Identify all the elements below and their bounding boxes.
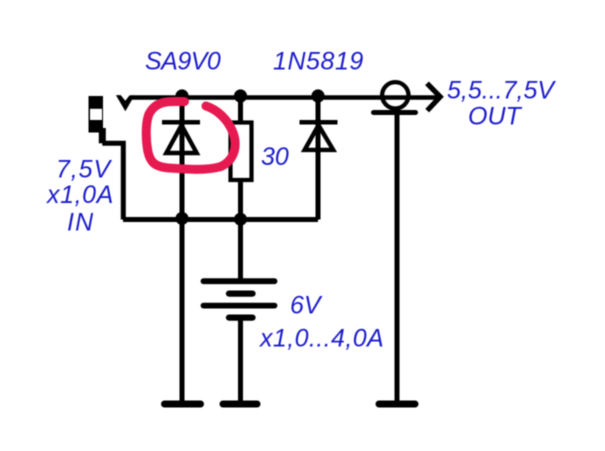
ground bar left <box>165 401 201 408</box>
junction dot top D2 <box>311 89 324 102</box>
wire vertical output to ground <box>395 111 400 402</box>
junction dot lower D1 <box>176 212 189 225</box>
diode D2 1N5819 cathode bar <box>300 120 338 125</box>
output connector circle <box>382 82 408 108</box>
output connector sleeve bar <box>374 110 416 115</box>
wire vertical resistor bottom to battery <box>238 181 243 279</box>
svg-text:6V: 6V <box>290 292 323 320</box>
svg-text:SA9V0: SA9V0 <box>145 47 221 75</box>
ground bar right <box>379 401 415 408</box>
diode D1 SA9V0 cathode bar <box>162 120 200 125</box>
diode D1 SA9V0 triangle <box>166 125 196 153</box>
battery BT1 plate long bottom <box>204 303 275 309</box>
diode D2 1N5819 triangle <box>305 125 334 150</box>
svg-text:IN: IN <box>67 209 94 237</box>
junction dot top D1 <box>175 89 188 102</box>
svg-text:x1,0A: x1,0A <box>46 181 114 209</box>
svg-text:x1,0...4,0A: x1,0...4,0A <box>259 325 384 353</box>
input chevron arrow <box>116 95 135 111</box>
svg-text:1N5819: 1N5819 <box>273 47 364 75</box>
svg-text:7,5V: 7,5V <box>56 156 112 184</box>
resistor R1 30 <box>231 123 252 181</box>
wire vertical through D1 to ground <box>180 98 185 403</box>
battery BT1 plate long top <box>204 278 275 284</box>
wire vertical D2 branch <box>316 98 321 220</box>
wire vertical resistor branch top <box>238 98 243 123</box>
svg-text:30: 30 <box>261 143 289 171</box>
svg-text:OUT: OUT <box>468 103 523 131</box>
junction dot lower R1 <box>234 213 247 226</box>
ground bar middle <box>223 401 257 408</box>
wire plug to lower rail staircase <box>99 128 106 143</box>
battery BT1 plate short lower <box>229 315 253 321</box>
connector J1 input plug <box>89 96 104 133</box>
battery BT1 plate short upper <box>229 291 253 297</box>
wire vertical battery bottom to ground <box>238 318 243 402</box>
annotation red circle around D1 <box>146 101 235 169</box>
svg-text:5,5...7,5V: 5,5...7,5V <box>447 77 556 105</box>
junction dot top R1 <box>234 89 247 102</box>
output arrow chevron <box>427 83 440 110</box>
wire top rail <box>131 95 440 100</box>
wire lower rail <box>123 217 318 222</box>
